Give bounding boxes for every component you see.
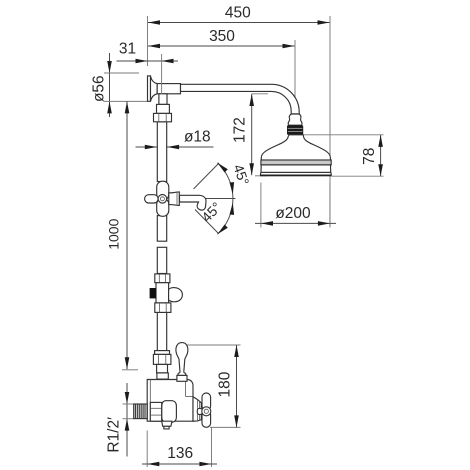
- shower head band: [261, 160, 331, 165]
- volume valve body: [156, 283, 169, 303]
- shower head skirt: [261, 165, 331, 173]
- flange union block: [157, 104, 170, 113]
- dimension dia200 line: [255, 222, 336, 224]
- mixer cross handle hub: [202, 407, 211, 416]
- dimension 45deg arc: [217, 163, 233, 235]
- mixer bottom outlet: [162, 421, 172, 426]
- flange union hex nut: [154, 113, 172, 121]
- wire 180 bottom extension line: [210, 426, 241, 428]
- shower head bell: [261, 135, 330, 160]
- wire dia56/1000 bottom extension line: [104, 100, 148, 102]
- volume valve upper hex nut: [155, 274, 170, 283]
- wire dia200 right extension line: [329, 183, 331, 228]
- wire wall-face extension line: [147, 16, 149, 66]
- svg-text:350: 350: [209, 28, 235, 45]
- shower head bottom lip: [261, 172, 332, 175]
- shower head connector collar: [288, 114, 302, 125]
- svg-text:180: 180: [217, 371, 234, 397]
- diverter bonnet: [169, 192, 180, 206]
- mixer outlet nub: [164, 426, 169, 429]
- diverter top spoke: [157, 181, 169, 200]
- riser pipe segment 4: [157, 312, 166, 350]
- volume valve left port: [150, 288, 156, 298]
- wire R1/2 bottom extension line: [123, 418, 135, 420]
- mixer cross handle bottom lobe: [202, 410, 211, 427]
- dimension 31 line: [117, 60, 179, 62]
- wire 172 bottom extension line: [255, 175, 267, 177]
- dimension R1/2 line: [126, 383, 128, 457]
- riser pipe segment 2: [157, 216, 166, 242]
- wire 78 top extension line: [304, 134, 384, 136]
- dimension 1000 line: [126, 101, 128, 369]
- dimension 136 line: [142, 463, 217, 465]
- mixer lever base collar: [177, 375, 187, 381]
- riser pipe segment 3: [157, 247, 166, 273]
- mixer neck collar: [157, 373, 168, 379]
- wire 180 top extension line: [187, 344, 241, 346]
- shower arm pipe with bend: [181, 84, 300, 114]
- diverter hub: [158, 195, 167, 204]
- mixer lever handle: [176, 343, 188, 376]
- svg-text:172: 172: [232, 117, 249, 143]
- wire 78 bottom extension line: [332, 175, 384, 177]
- mixer union flange: [155, 351, 170, 355]
- wall flange cone: [151, 76, 158, 101]
- svg-text:31: 31: [119, 41, 136, 58]
- wire 45deg horizontal radial line: [203, 198, 236, 200]
- svg-text:ø18: ø18: [184, 129, 211, 146]
- svg-text:136: 136: [167, 445, 193, 462]
- mixer cross handle top lobe: [202, 393, 211, 410]
- svg-text:ø200: ø200: [275, 205, 311, 222]
- mixer left hex coupling: [150, 402, 161, 421]
- inlet nipple R1/2: [134, 404, 148, 419]
- dimension 180 line: [236, 345, 238, 427]
- mixer valve body: [147, 380, 193, 422]
- dimension 350 line: [148, 45, 295, 47]
- dimension 78 line: [380, 135, 382, 176]
- riser pipe segment 1: [157, 122, 166, 182]
- dimension 172 line: [251, 94, 253, 175]
- dimension 45deg arc arrows: [217, 163, 227, 173]
- mixer union hex nut: [153, 354, 171, 364]
- wire 350 right extension line: [294, 40, 296, 108]
- dimension dia18 line: [136, 146, 214, 148]
- diverter bottom spoke: [157, 198, 169, 216]
- svg-text:1000: 1000: [106, 218, 122, 249]
- shower arm sleeve: [157, 84, 180, 94]
- volume valve lower hex nut: [155, 303, 171, 313]
- svg-text:ø56: ø56: [91, 75, 108, 102]
- diverter left spoke: [145, 195, 159, 203]
- mixer cross handle left arm: [197, 408, 202, 414]
- svg-text:R1/2′: R1/2′: [106, 417, 123, 453]
- wire 45deg upper radial line: [194, 163, 220, 189]
- volume valve right knob: [169, 288, 183, 302]
- wire 136 right extension line: [211, 428, 213, 468]
- mixer front boss: [162, 401, 177, 423]
- wire dia56 top extension line: [104, 72, 139, 74]
- shower head knurled nut: [287, 125, 303, 135]
- mixer neck: [157, 364, 168, 373]
- wire 450 right extension line: [329, 16, 331, 227]
- wire 45deg lower radial line: [195, 210, 219, 234]
- wire dia200 left extension line: [260, 183, 262, 228]
- dimension 450 line: [148, 22, 330, 24]
- wall flange plate: [148, 76, 151, 101]
- dimension dia56 line: [109, 53, 111, 117]
- mixer cartridge cone: [193, 397, 201, 421]
- wire R1/2 top extension line: [123, 403, 135, 405]
- wire 136 left extension line: [146, 431, 148, 468]
- flange tee fitting: [159, 94, 167, 105]
- wire 1000 bottom extension line: [122, 369, 138, 371]
- wire 172 top extension line: [252, 93, 268, 95]
- diverter spout: [180, 195, 207, 210]
- wire pipe centerline extension: [161, 54, 163, 94]
- svg-text:450: 450: [225, 5, 251, 22]
- svg-text:78: 78: [361, 148, 378, 165]
